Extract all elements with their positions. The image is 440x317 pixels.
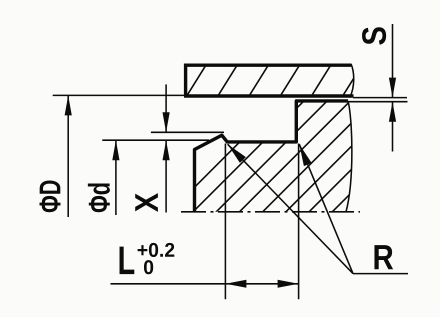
leader R left arrow (228, 144, 246, 163)
extension line L2 (groove bottom) (102, 139, 209, 141)
upper plate bottom edge (184, 94, 354, 98)
label S (362, 27, 386, 45)
arrow S up (389, 102, 396, 122)
label phi D (40, 181, 61, 213)
dimension line phi D (67, 95, 69, 217)
lower block break line (346, 101, 352, 212)
extension line L left (224, 144, 226, 300)
dimension line S upper (392, 24, 394, 98)
label L with tolerance (120, 243, 175, 274)
upper plate outline (184, 65, 351, 95)
label R (374, 245, 393, 269)
extension line U (ridge top) (151, 131, 224, 133)
dimension line X lower (165, 140, 167, 212)
leader R shoulder (353, 273, 408, 275)
lower block outline (195, 101, 349, 212)
arrow phi D (65, 95, 72, 115)
extension line A (phi D) (53, 94, 186, 96)
leader R right (299, 144, 353, 273)
dimension line phi d (115, 140, 117, 215)
arrow X down (163, 112, 170, 132)
extension line S lower (349, 101, 408, 103)
upper plate break line (350, 64, 354, 98)
dimension line S lower (392, 102, 394, 152)
arrow X up (163, 140, 170, 160)
label phi d (88, 183, 110, 212)
arrow S down (389, 78, 396, 98)
arrow L left (225, 280, 246, 288)
extension line L right (298, 144, 300, 300)
dimension line X upper (165, 84, 167, 132)
leader R left (228, 144, 353, 273)
hatch of upper plate (188, 66, 362, 94)
arrow L right (278, 280, 299, 288)
label X (135, 193, 158, 212)
centerline (181, 211, 360, 213)
hatch of lower block (169, 94, 440, 213)
leader R right arrow (299, 144, 311, 166)
arrow phi d (112, 140, 119, 160)
dimension line L (111, 283, 299, 285)
extension line S upper (353, 97, 407, 99)
